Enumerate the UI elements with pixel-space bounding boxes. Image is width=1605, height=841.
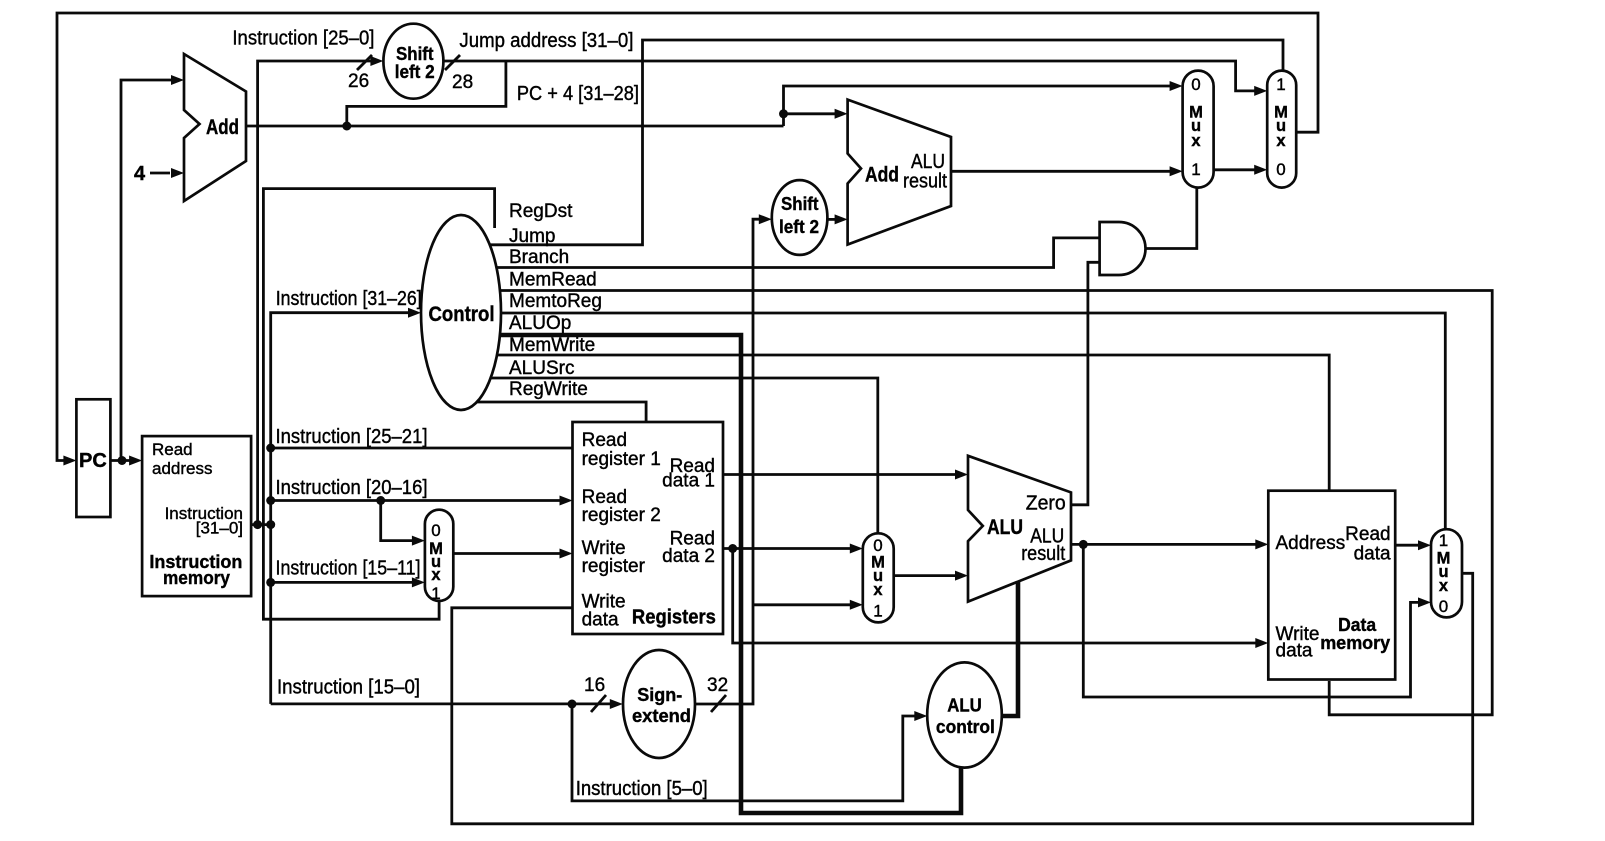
wire PC+4[31-28] branch to jump address [347, 61, 506, 126]
svg-text:x: x [873, 581, 883, 599]
wire RegDst routing (control top to RegDst mux bottom) [263, 189, 494, 620]
wire Read data 2 down to Data memory Write data [733, 549, 1256, 644]
oval Sign-extend [623, 650, 695, 758]
svg-text:1: 1 [873, 602, 882, 621]
svg-text:RegDst: RegDst [509, 201, 573, 222]
svg-text:0: 0 [1276, 160, 1285, 179]
svg-text:ALU: ALU [987, 516, 1023, 539]
svg-text:Read: Read [152, 440, 193, 459]
svg-text:ALU: ALU [947, 695, 982, 716]
svg-text:Control: Control [429, 303, 495, 326]
gate AND (branch) [1100, 222, 1146, 275]
svg-text:Branch: Branch [509, 247, 569, 268]
wire Instruction[5-0] to ALU control [572, 704, 915, 801]
wire constant 4 into Add [150, 172, 170, 175]
adder Add (PC+4) [184, 54, 246, 201]
wire PC output to Instruction memory [110, 459, 130, 462]
svg-text:[31–0]: [31–0] [196, 519, 243, 538]
junction bus tap 20-16 [266, 496, 275, 505]
svg-text:Instruction [25–0]: Instruction [25–0] [232, 28, 374, 50]
slash 32 width mark [711, 695, 726, 712]
svg-text:Add: Add [865, 164, 899, 187]
svg-text:Instruction [25–21]: Instruction [25–21] [276, 426, 428, 448]
svg-text:Instruction [20–16]: Instruction [20–16] [276, 477, 428, 499]
svg-text:register 2: register 2 [582, 505, 661, 526]
svg-text:Jump: Jump [509, 226, 555, 247]
svg-text:data: data [1276, 641, 1313, 662]
wire ALUOp thick to ALU control [500, 335, 961, 813]
svg-text:0: 0 [1191, 75, 1200, 94]
junction PC+4 to branch adder [779, 109, 788, 118]
wire Zero to AND gate [1071, 262, 1100, 505]
svg-text:data: data [1354, 543, 1391, 564]
svg-text:x: x [431, 566, 441, 584]
svg-text:left 2: left 2 [395, 61, 435, 82]
wire PC+4 up-branch to Add [121, 80, 172, 461]
wire ALUSrc to ALUSrc mux top [491, 378, 878, 533]
svg-text:32: 32 [707, 675, 728, 696]
wire write-back (right mux output to Registers Write data) [452, 573, 1473, 824]
junction PC+4 split [342, 122, 351, 131]
svg-text:result: result [903, 171, 947, 193]
box Data memory [1268, 491, 1395, 680]
box Instruction memory [142, 436, 251, 596]
wire Sign-extend output up to shift left 2 and ALUSrc mux [695, 219, 759, 704]
svg-text:Registers: Registers [632, 607, 716, 629]
svg-text:memory: memory [1320, 632, 1391, 653]
oval ALU control [927, 662, 1002, 767]
svg-text:PC + 4 [31–28]: PC + 4 [31–28] [517, 83, 639, 105]
svg-text:PC: PC [79, 450, 107, 472]
wire Instruction[31-26] into Control [271, 313, 409, 704]
svg-text:control: control [936, 716, 995, 737]
oval Shift left 2 (jump) [383, 24, 443, 99]
svg-text:left 2: left 2 [779, 216, 819, 237]
mux branch (PCSrc) [1183, 71, 1214, 188]
svg-text:x: x [1439, 577, 1449, 595]
svg-text:0: 0 [873, 536, 882, 555]
svg-text:Instruction [15–11]: Instruction [15–11] [276, 558, 421, 580]
svg-text:16: 16 [584, 675, 605, 696]
register PC [76, 399, 110, 517]
wire Read data 1 to ALU [723, 473, 956, 476]
wire branch adder output to branch mux 1 [951, 170, 1170, 173]
svg-text:0: 0 [431, 521, 440, 540]
oval Control [421, 215, 501, 410]
wire Read data 2 to ALUSrc mux 0 [723, 547, 850, 550]
svg-text:MemtoReg: MemtoReg [509, 291, 602, 312]
wire MemRead to Data memory bottom [500, 291, 1492, 715]
svg-text:1: 1 [1439, 531, 1448, 550]
svg-text:Sign-: Sign- [637, 684, 682, 705]
svg-text:MemWrite: MemWrite [509, 335, 595, 356]
svg-text:x: x [1276, 132, 1286, 150]
wire MemWrite to Data memory top [497, 355, 1329, 491]
svg-text:address: address [152, 459, 212, 478]
svg-text:28: 28 [452, 72, 473, 93]
svg-text:Instruction [5–0]: Instruction [5–0] [576, 778, 708, 800]
svg-text:extend: extend [632, 705, 691, 726]
svg-text:1: 1 [431, 584, 440, 603]
wire ALUSrc mux output to ALU [894, 574, 956, 577]
svg-text:Read: Read [1345, 524, 1390, 545]
wire Add output (PC+4) [246, 125, 784, 128]
box Registers [573, 422, 724, 634]
mux jump [1267, 71, 1296, 188]
svg-text:register 1: register 1 [582, 449, 661, 470]
alu ALU [968, 456, 1071, 602]
junction Read data 2 split [728, 544, 737, 553]
wire Read data to right mux 1 [1395, 544, 1418, 547]
wire ALU result to Data memory Address [1071, 543, 1256, 546]
junction 15-0 split [568, 700, 577, 709]
wire Instruction[20-16] to Read register 2 [271, 499, 560, 502]
wire into branch adder top [784, 112, 836, 115]
slash 28 width mark [445, 55, 460, 70]
wire Instruction[15-0] to Sign-extend [271, 703, 611, 706]
svg-text:Add: Add [206, 116, 239, 139]
svg-text:data: data [582, 610, 619, 631]
svg-text:Instruction [31–26]: Instruction [31–26] [276, 288, 422, 310]
svg-text:memory: memory [163, 567, 231, 588]
svg-text:1: 1 [1191, 160, 1200, 179]
adder branch Add [848, 100, 951, 245]
arrow into PC [63, 456, 76, 466]
svg-text:Instruction [15–0]: Instruction [15–0] [277, 677, 420, 699]
svg-text:ALUSrc: ALUSrc [509, 358, 574, 379]
wire Instruction[25-21] to Read register 1 [271, 447, 573, 450]
wire Branch to AND gate [497, 238, 1100, 268]
svg-text:result: result [1021, 543, 1065, 565]
wire PC feedback loop (mux2 output to PC input) [57, 13, 1318, 461]
wire MemtoReg to right mux top [501, 313, 1445, 529]
junction bus tap 25-21 [266, 444, 275, 453]
svg-text:0: 0 [1439, 597, 1448, 616]
wire Instruction[25-0] to Shift left 2 [251, 61, 371, 525]
wire Jump select (control to jump mux top) [490, 40, 1283, 245]
wire PC+4 up to branch mux [784, 86, 1171, 126]
wire branch mux output to jump mux 0 [1214, 168, 1255, 171]
junction PC output [118, 456, 127, 465]
svg-text:MemRead: MemRead [509, 270, 597, 291]
wire ALU control output thick to ALU [1002, 582, 1018, 716]
svg-text:Zero: Zero [1026, 493, 1066, 515]
wire shift left 2 to branch adder [827, 218, 835, 221]
slash 16 width mark [591, 695, 606, 712]
svg-text:data 1: data 1 [662, 470, 715, 491]
svg-text:1: 1 [1276, 75, 1285, 94]
mux RegDst [425, 510, 453, 601]
svg-text:Jump address [31–0]: Jump address [31–0] [459, 30, 633, 52]
svg-text:Shift: Shift [781, 193, 819, 214]
wire Instruction[15-11] to RegDst mux 1 [271, 581, 413, 584]
svg-text:data 2: data 2 [662, 546, 715, 567]
junction ALU result split [1079, 540, 1088, 549]
svg-text:4: 4 [134, 163, 146, 185]
mux MemtoReg [1431, 529, 1462, 617]
svg-text:RegWrite: RegWrite [509, 379, 588, 400]
wire sign-extend to ALUSrc mux 1 [753, 603, 850, 606]
oval Shift left 2 (branch) [772, 180, 828, 255]
mux ALUSrc [863, 533, 894, 622]
junction bus tap 15-11 [266, 578, 275, 587]
svg-text:Address: Address [1276, 533, 1346, 554]
svg-text:26: 26 [348, 71, 369, 92]
junction instruction bus taps [253, 520, 262, 529]
wire RegDst mux output to Write register [453, 552, 560, 555]
wire ALU result bypass to right mux 0 [1083, 544, 1418, 697]
junction 20-16 split to RegDst mux [376, 496, 385, 505]
svg-text:register: register [582, 556, 646, 577]
wire AND output to branch mux select [1146, 188, 1197, 249]
wire RegWrite to Registers top [477, 402, 646, 422]
slash 26 width mark [357, 55, 372, 70]
svg-text:ALUOp: ALUOp [509, 313, 571, 334]
wire jump address to jump mux [443, 61, 1254, 91]
wire 20-16 branch to RegDst mux 0 [381, 501, 413, 541]
svg-text:x: x [1191, 132, 1201, 150]
